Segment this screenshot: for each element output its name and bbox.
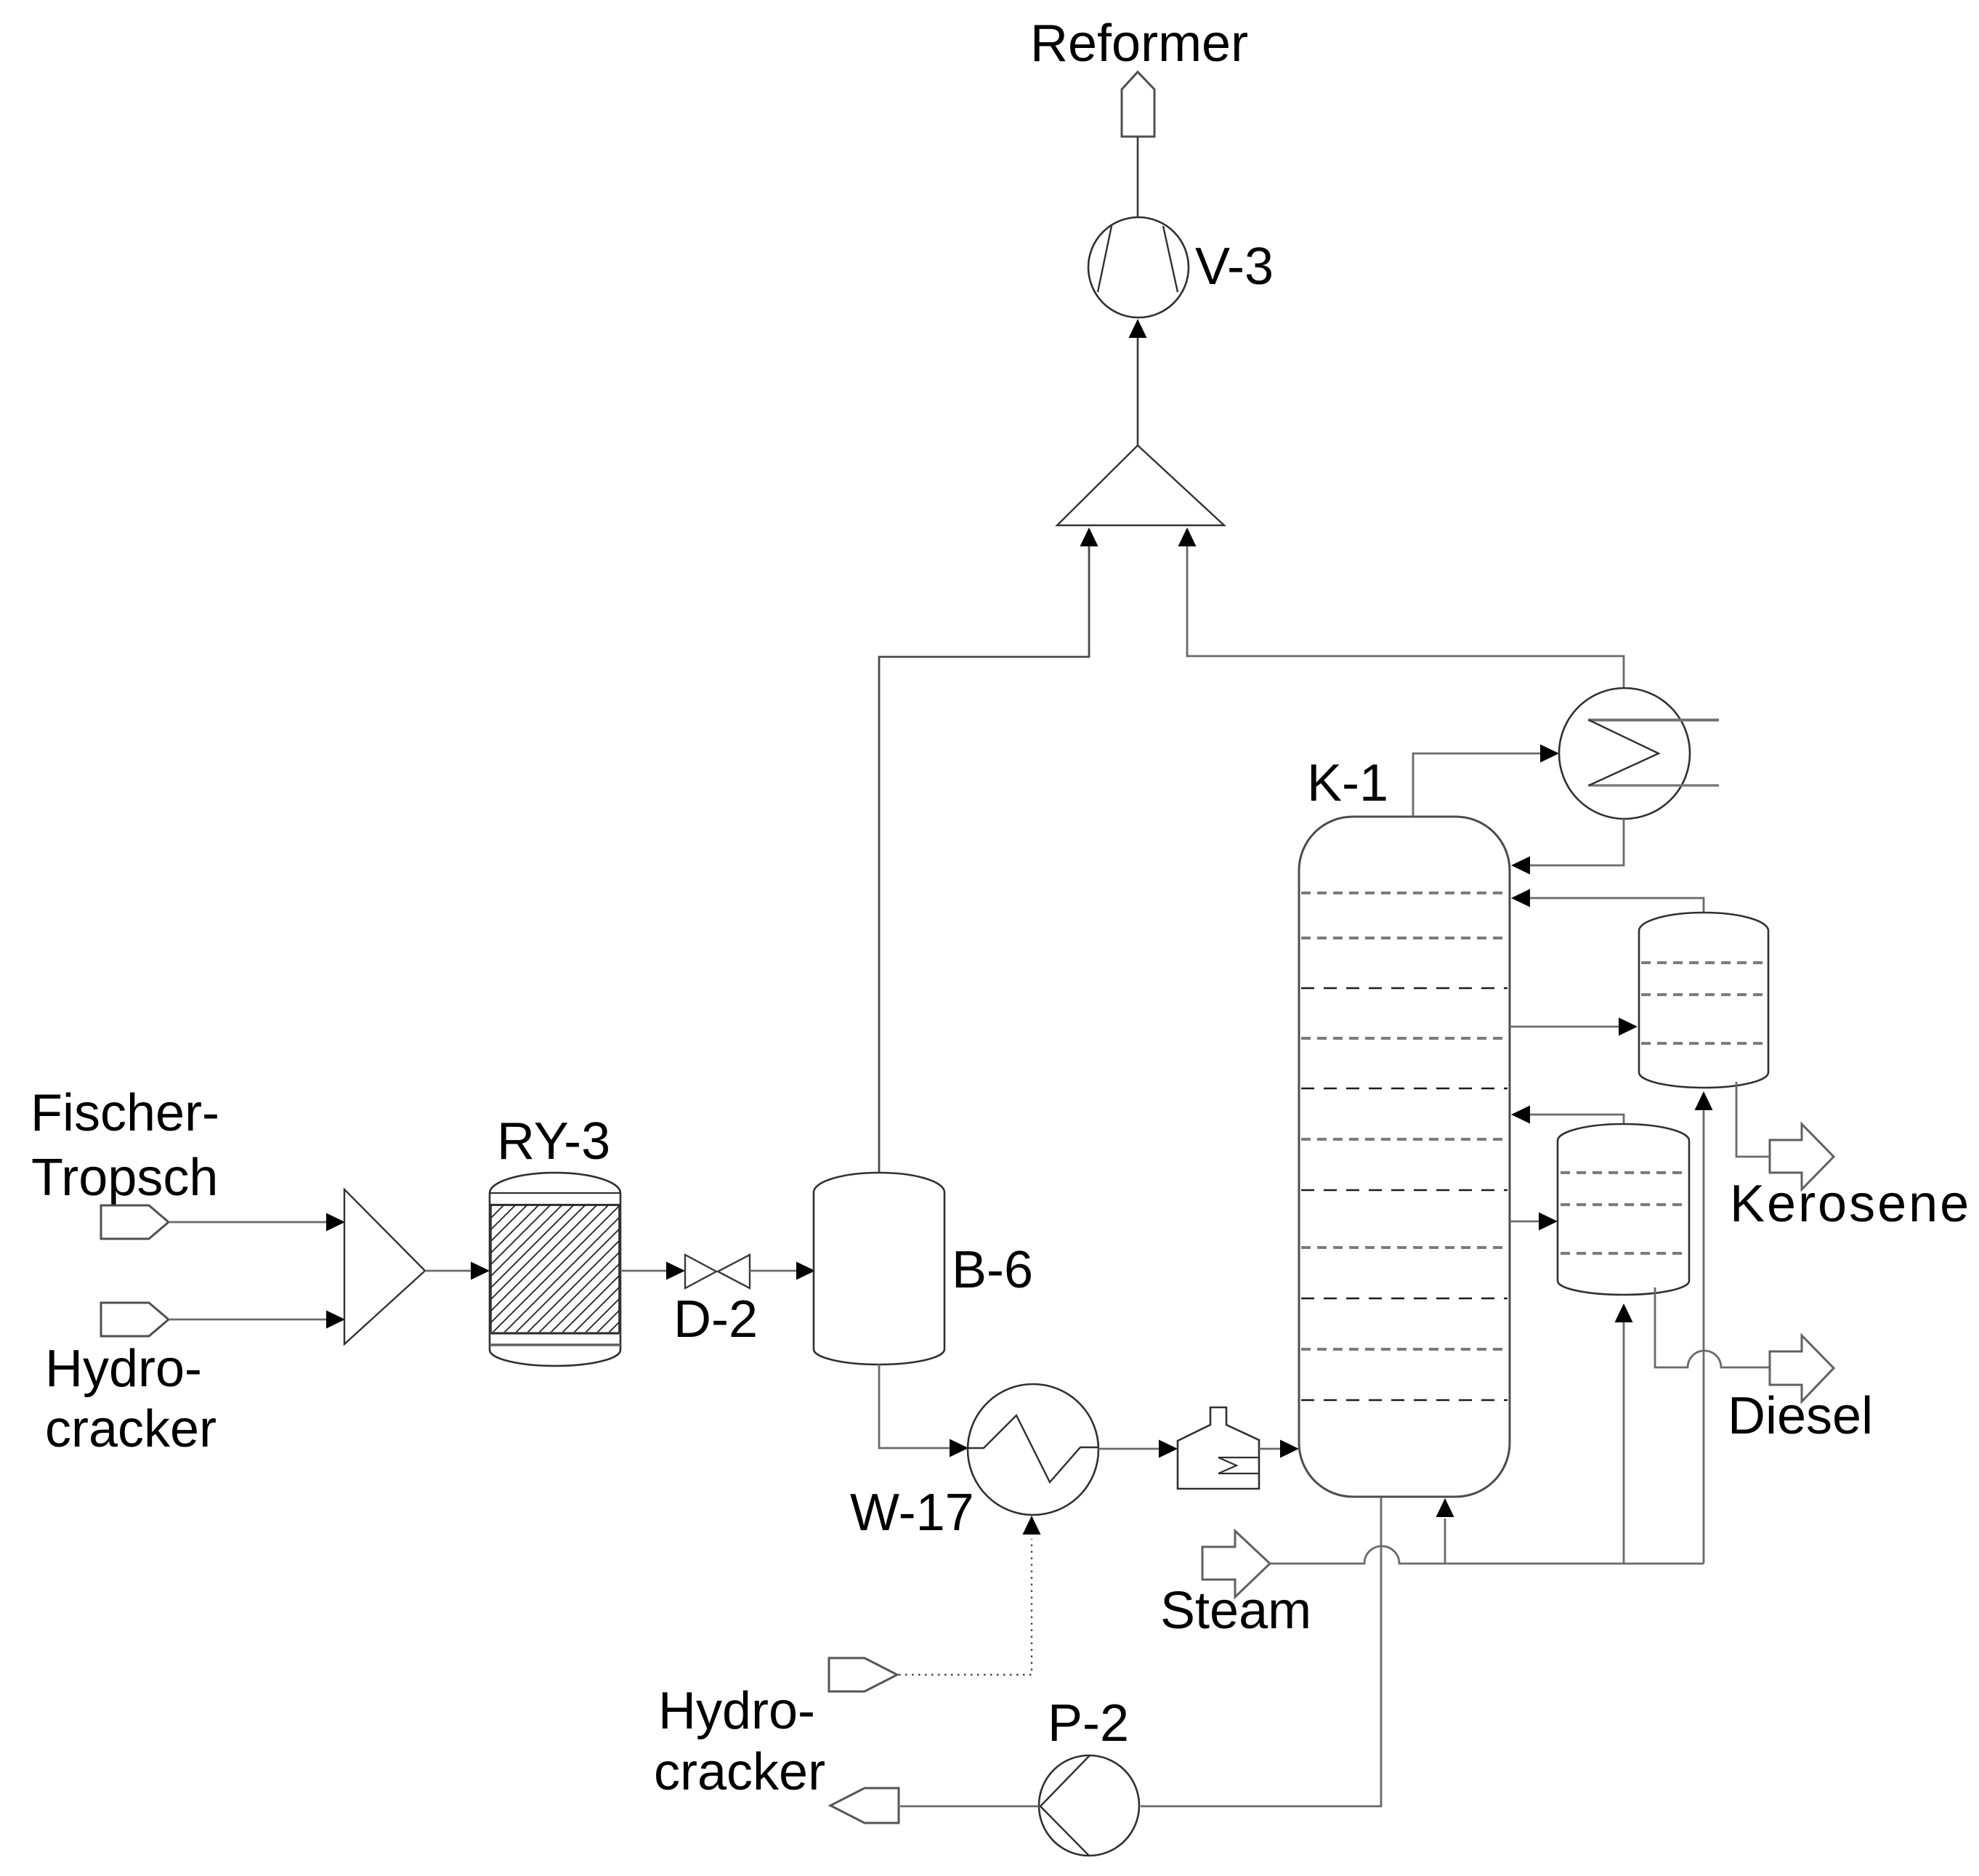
svg-text:Fischer-: Fischer-: [31, 1084, 219, 1142]
wire condenser to column reflux: [1530, 819, 1624, 865]
svg-text:Hydro-: Hydro-: [658, 1682, 815, 1740]
svg-text:Reformer: Reformer: [1030, 15, 1248, 73]
wire diesel product with hop: [1655, 1287, 1770, 1367]
mixer (triangle right): [344, 1189, 425, 1344]
wire reflux drum top to column: [1530, 898, 1704, 913]
connector Fischer-Tropsch input (pentagon right): [101, 1205, 169, 1239]
wire mixer apex to V-3 with arrow: [1137, 338, 1139, 445]
wire control signal (dotted) to W-17: [899, 1539, 1032, 1675]
wire column sidedraw to diesel stripper: [1510, 1221, 1540, 1223]
wire pump to hydrocracker out: [900, 1806, 1039, 1808]
svg-text:Diesel: Diesel: [1728, 1387, 1873, 1445]
svg-text:B-6: B-6: [952, 1241, 1033, 1299]
wire steam branch into column bottom: [1444, 1519, 1446, 1564]
svg-text:cracker: cracker: [45, 1400, 216, 1458]
connector Kerosene out (block arrow): [1770, 1124, 1834, 1189]
wire RY-3 to valve D-2: [620, 1270, 666, 1272]
wire column sidedraw to kerosene stripper: [1510, 1026, 1620, 1028]
svg-text:cracker: cracker: [654, 1743, 825, 1801]
connector Diesel out (block arrow): [1770, 1335, 1834, 1402]
svg-text:Kerosene: Kerosene: [1730, 1175, 1971, 1233]
wire pentagon to V-3: [1137, 137, 1139, 217]
vessel B-6: [814, 1173, 944, 1364]
wire column bottoms to pump P-2: [1141, 1497, 1381, 1806]
wire B-6 bottom to W-17: [879, 1364, 950, 1448]
svg-text:V-3: V-3: [1195, 238, 1274, 296]
wire condenser top vapor to mixer: [1187, 530, 1624, 689]
svg-text:P-2: P-2: [1048, 1694, 1129, 1752]
condenser (heat exchanger): [1559, 688, 1719, 819]
wire kerosene product: [1736, 1082, 1770, 1157]
wire mixer to RY-3: [425, 1270, 471, 1272]
wire HC input to mixer: [169, 1319, 326, 1321]
connector Hydro-cracker out (pentagon left): [830, 1788, 899, 1823]
wire B-6 top vapor to mixer: [879, 530, 1089, 1173]
svg-text:Steam: Steam: [1160, 1582, 1311, 1640]
mixer (triangle up): [1057, 445, 1224, 525]
wire furnace to column K-1: [1259, 1448, 1280, 1450]
wire FT input to mixer: [169, 1221, 326, 1224]
furnace/heater: [1178, 1407, 1259, 1489]
wire valve to B-6: [750, 1270, 798, 1272]
connector off-page to Reformer (pentagon up): [1122, 72, 1154, 137]
reactor RY-3: [490, 1173, 620, 1366]
wire steam main with hop over bottoms line: [1270, 1546, 1704, 1564]
wire steam to kerosene stripper bottom: [1703, 1107, 1705, 1564]
drum (kerosene stripper): [1639, 913, 1768, 1088]
connector control signal in (pentagon right): [829, 1658, 897, 1691]
svg-text:RY-3: RY-3: [497, 1112, 610, 1171]
svg-text:W-17: W-17: [850, 1484, 974, 1542]
wire column overhead to condenser: [1413, 753, 1541, 817]
valve D-2: [685, 1255, 750, 1288]
column K-1: [1299, 817, 1510, 1497]
connector Hydro-cracker input (pentagon right): [101, 1303, 169, 1336]
pump P-2: [1039, 1755, 1139, 1856]
compressor V-3: [1088, 217, 1189, 318]
heat exchanger W-17: [968, 1384, 1098, 1515]
drum (diesel stripper): [1558, 1124, 1689, 1295]
svg-text:Hydro-: Hydro-: [45, 1340, 202, 1398]
svg-text:D-2: D-2: [673, 1290, 758, 1349]
connector Steam input (block arrow): [1202, 1531, 1270, 1597]
svg-text:K-1: K-1: [1307, 754, 1388, 812]
wire W-17 to furnace: [1098, 1448, 1160, 1450]
wire diesel stripper top to column: [1530, 1115, 1624, 1124]
svg-text:Tropsch: Tropsch: [31, 1149, 218, 1207]
wire steam to diesel stripper bottom: [1623, 1315, 1625, 1564]
